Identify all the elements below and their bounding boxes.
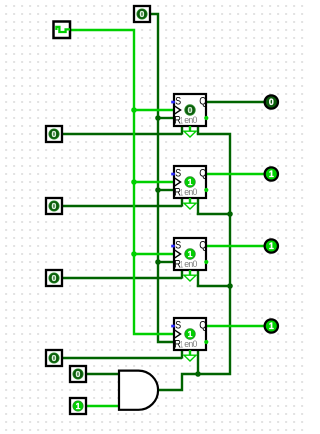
svg-text:Q: Q [199, 320, 207, 332]
node junction U3-R [155, 259, 161, 265]
wire clock branch U3 [134, 253, 176, 255]
svg-text:0: 0 [52, 353, 57, 363]
wire branch to U2 R [158, 189, 174, 191]
wire U2 Q to output O2 [206, 173, 265, 175]
svg-text:Q: Q [199, 168, 207, 180]
node junction clk-U1 [131, 107, 137, 113]
wire pin P1 to U1 south-left pin [62, 133, 182, 135]
wire pin P3 to U3 south-left pin [62, 277, 182, 279]
wire pin P4 to U4 south-left pin [62, 357, 182, 359]
node junction U2-R [155, 187, 161, 193]
input pin P6 (1) [70, 398, 86, 414]
input pin P0 (reset, 0) [134, 6, 150, 22]
input pin P2 (0) [46, 198, 62, 214]
svg-text:0: 0 [76, 369, 81, 379]
input pin P4 (0) [46, 350, 62, 366]
node junction chain-U2 [227, 211, 233, 217]
S-R flip-flop U3 [174, 238, 206, 270]
svg-text:Q: Q [199, 96, 207, 108]
wire branch to U1 R [158, 117, 174, 119]
node junction chain-U3 [227, 283, 233, 289]
svg-text:0: 0 [140, 9, 145, 19]
wire U3 Q to output O3 [206, 245, 265, 247]
wire AND output to chain node [158, 374, 198, 390]
svg-text:1: 1 [180, 259, 183, 269]
S-R flip-flop U1 [174, 94, 206, 126]
node junction AND-out chain [195, 371, 201, 377]
svg-text:1: 1 [76, 401, 81, 411]
S-R flip-flop U2 [174, 166, 206, 198]
wire U4 south-left stub [181, 350, 183, 359]
output pin O4 (1) [265, 320, 278, 333]
wire clock branch U2 [134, 181, 176, 183]
wire U3 south-right stub [197, 270, 199, 287]
wire U2 south-right to chain [197, 213, 230, 215]
output pin O1 (0) [265, 96, 278, 109]
svg-text:S: S [175, 167, 181, 179]
svg-text:S: S [175, 239, 181, 251]
svg-text:1: 1 [188, 249, 193, 259]
svg-text:1: 1 [180, 187, 183, 197]
wire pin P5 to AND input A [86, 373, 119, 375]
input pin P3 (0) [46, 270, 62, 286]
wire pin P6 to AND input B [86, 405, 119, 407]
svg-text:1: 1 [188, 177, 193, 187]
wire branch to U3 R [158, 261, 174, 263]
wire clock net spine [70, 30, 176, 334]
node junction clk-U3 [131, 251, 137, 257]
svg-text:1: 1 [180, 339, 183, 349]
clock CLK1 [54, 22, 71, 39]
input pin P5 (0) [70, 366, 86, 382]
svg-text:0: 0 [188, 105, 193, 115]
wire U2 south-right stub [197, 198, 199, 215]
svg-text:Q: Q [199, 240, 207, 252]
AND gate G1 [119, 371, 158, 410]
wire pin P2 to U2 south-left pin [62, 205, 182, 207]
wire U1 south-right stub [197, 126, 199, 135]
svg-text:0: 0 [52, 129, 57, 139]
wire U2 south-left stub [181, 198, 183, 207]
svg-text:en0: en0 [184, 259, 197, 269]
node junction clk-U2 [131, 179, 137, 185]
svg-text:1: 1 [180, 115, 183, 125]
svg-text:en0: en0 [184, 339, 197, 349]
input pin P1 (0) [46, 126, 62, 142]
wire U4 Q to output O4 [206, 325, 265, 327]
svg-text:1: 1 [269, 321, 274, 331]
wire U1 south-left stub [181, 126, 183, 135]
svg-text:en0: en0 [184, 187, 197, 197]
wire U1 Q to output O1 [206, 101, 264, 103]
svg-text:en0: en0 [184, 115, 197, 125]
svg-text:0: 0 [52, 201, 57, 211]
S-R flip-flop U4 [174, 318, 206, 350]
wire U3 south-right to chain [197, 285, 230, 287]
wire U3 south-left stub [181, 270, 183, 279]
wire reset-net from top pin down to FF4 R [150, 14, 174, 342]
wire south chain U1 to AND output node [197, 134, 230, 374]
svg-text:1: 1 [188, 329, 193, 339]
svg-text:S: S [175, 95, 181, 107]
svg-text:S: S [175, 319, 181, 331]
output pin O2 (1) [265, 168, 278, 181]
wire U4 south-right stub [197, 350, 199, 375]
svg-text:1: 1 [269, 241, 274, 251]
svg-text:1: 1 [269, 169, 274, 179]
output pin O3 (1) [265, 240, 278, 253]
svg-text:0: 0 [52, 273, 57, 283]
node junction U1-R [155, 115, 161, 121]
wire clock branch U1 [134, 109, 176, 111]
svg-text:0: 0 [269, 97, 274, 107]
